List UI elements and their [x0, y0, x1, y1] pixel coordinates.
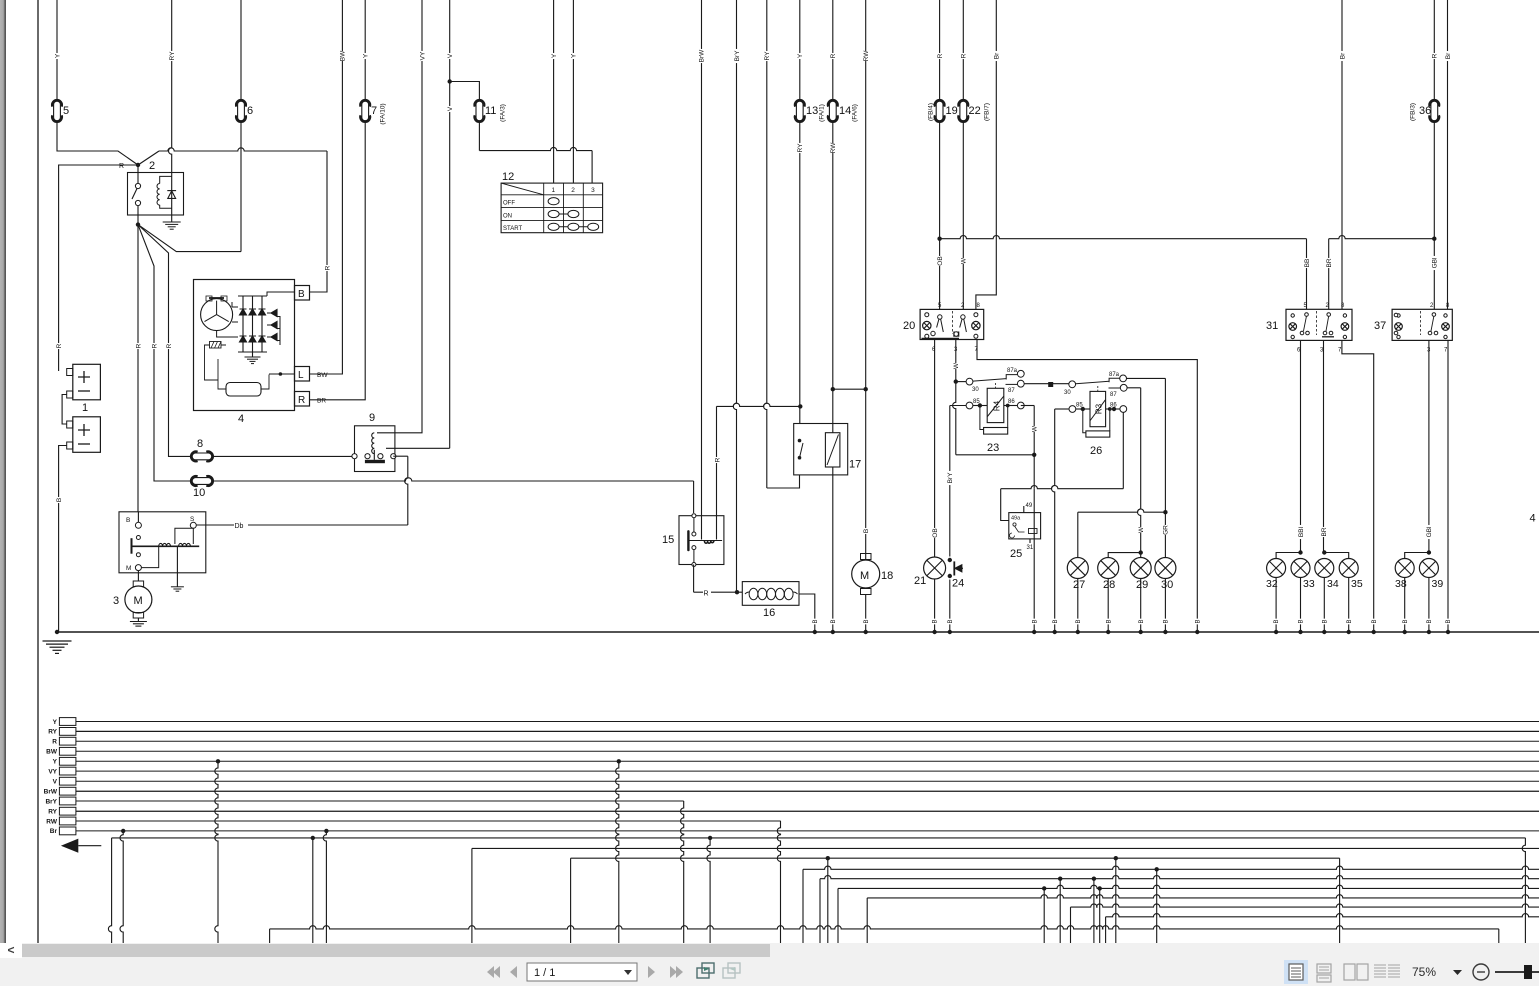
wire lamp 34 to bus [1323, 578, 1325, 633]
svg-text:B: B [1032, 619, 1038, 623]
label lamp 32 [1266, 578, 1278, 590]
junction diode24 bus [948, 630, 952, 634]
wire lamp 29 to bus [1140, 579, 1142, 633]
B splice 17 drop [830, 619, 837, 625]
retract page icon [697, 963, 714, 978]
junction lamp32 bus [1274, 630, 1278, 634]
relay 26 contact 87a [1109, 372, 1127, 382]
svg-text:86: 86 [1008, 399, 1015, 405]
label ignition switch 12 [502, 171, 514, 183]
wire Br to switch 31 pin8 [1341, 0, 1343, 309]
battery 1 cell A [67, 364, 101, 400]
svg-text:Br: Br [994, 52, 1001, 59]
junction relay23 30 [954, 379, 958, 383]
B splice lamp39 [1426, 619, 1433, 625]
svg-text:2: 2 [149, 160, 155, 172]
ground solenoid [171, 587, 184, 591]
lamp 30 [1155, 558, 1176, 579]
harness drop 24 [1114, 856, 1118, 943]
svg-text:B: B [56, 498, 63, 502]
svg-text:W: W [953, 362, 960, 369]
wire coil 16 to bus [799, 594, 815, 632]
svg-text:(FB/4): (FB/4) [927, 103, 934, 121]
svg-text:VY: VY [48, 768, 57, 775]
switch 31 pin6 [1297, 348, 1301, 354]
wire label Y2 [796, 53, 804, 59]
wire label R fan1 [134, 343, 142, 349]
starter B terminal [126, 512, 141, 540]
wire label B battery [55, 497, 63, 503]
harness wire BW row4 [76, 750, 1539, 752]
wire lamp 35 to bus [1348, 578, 1350, 633]
connector 6 [236, 100, 246, 122]
wire battery2 minus to ground bus [59, 446, 67, 633]
wire RY2 to switch 17 [764, 0, 800, 488]
harness route line a [112, 837, 1526, 839]
switch 20 dashed [951, 311, 953, 334]
harness drop 20 [1070, 907, 1072, 943]
harness drop 23 [1105, 917, 1107, 943]
svg-text:BR: BR [317, 398, 326, 405]
harness drop 18 [1042, 886, 1046, 943]
ignition switch 12 table box [501, 183, 602, 233]
wire lamp 30 to bus [1164, 579, 1166, 633]
svg-text:30: 30 [1064, 390, 1071, 396]
svg-text:5: 5 [938, 303, 942, 309]
svg-text:87: 87 [1008, 388, 1015, 394]
B splice motor18 [862, 619, 869, 625]
svg-text:BrW: BrW [698, 49, 705, 63]
svg-text:(FA/1): (FA/1) [818, 104, 825, 122]
wire label Y col2 [570, 53, 578, 59]
table 12 ON contacts [548, 210, 579, 217]
switch 15 bar [687, 531, 689, 550]
svg-text:B: B [831, 619, 837, 623]
svg-text:4: 4 [1530, 513, 1536, 525]
svg-text:87: 87 [1110, 392, 1117, 398]
wire relay26 86 to flasher 25 [1001, 412, 1124, 520]
label connector 7 FA10 [379, 103, 386, 124]
starter solenoid box [119, 512, 206, 573]
table 12 row ON [503, 213, 512, 219]
wire Db to starter S [193, 524, 407, 526]
relay 23 contact 85 [966, 399, 987, 409]
svg-text:OB: OB [937, 256, 944, 265]
relay 26 contact 30 [1064, 381, 1076, 396]
B splice lamp21 [931, 619, 938, 625]
svg-text:(FA/10): (FA/10) [379, 103, 386, 124]
harness drop 9 [616, 759, 621, 943]
relay 26 blade [1076, 381, 1110, 384]
svg-text:8: 8 [197, 438, 203, 450]
label connector 5 [63, 105, 69, 117]
harness drop 14 [819, 879, 821, 943]
starter armature bar [132, 545, 200, 547]
junction coil16 bus [813, 630, 817, 634]
wire Br to switch 37 pin8 [1447, 0, 1449, 309]
harness drop 13 [802, 869, 804, 943]
svg-text:R: R [937, 53, 944, 58]
wire label R fan2 [150, 343, 158, 349]
label alternator 4 [238, 413, 244, 425]
connector 14 [828, 100, 838, 122]
wire BrY drop [733, 0, 736, 592]
wire label BW top [339, 50, 347, 61]
svg-text:1: 1 [552, 187, 556, 194]
wire RY through relay 2 [169, 0, 172, 222]
svg-text:12: 12 [502, 171, 514, 183]
switch 37 contacts [1394, 313, 1438, 335]
wire label R battery riser [55, 343, 63, 349]
harness wire Br row12 [76, 830, 1539, 832]
harness connector Y row5 [59, 757, 76, 765]
svg-text:7: 7 [371, 105, 377, 117]
junction lamp21 bus [932, 630, 936, 634]
svg-text:BrW: BrW [44, 789, 58, 796]
relay 26 contact 85 [1069, 403, 1090, 413]
wire Y2 to component 17 [798, 0, 802, 424]
svg-text:26: 26 [1090, 445, 1102, 457]
wire label R [119, 163, 124, 170]
wire R через connector 36 [1432, 0, 1436, 309]
svg-text:Y: Y [797, 53, 804, 58]
harness wire Y row1 [76, 721, 1539, 723]
alternator 4 box [194, 280, 295, 411]
page border [37, 0, 39, 943]
wire lamp 38 feed [1405, 553, 1429, 559]
harness drop 7 [471, 848, 473, 943]
B splice lamp27 [1075, 619, 1082, 625]
svg-text:R: R [151, 343, 158, 348]
label battery 1 [82, 402, 88, 414]
harness wire V row7 [76, 780, 1539, 782]
svg-text:GBl: GBl [1426, 526, 1433, 537]
harness drop 3 [215, 759, 220, 943]
wire label Br 31 [1338, 51, 1346, 61]
wire fan to connector 6 wire [138, 225, 241, 252]
label relay 2 [149, 160, 155, 172]
alternator diode D6 [259, 336, 266, 342]
junction pin7 31 bus [1372, 630, 1376, 634]
svg-text:87a: 87a [1007, 368, 1018, 374]
wire switch31 pin6 to lamp 33 [1298, 340, 1302, 554]
harness drop 25 [1155, 867, 1159, 943]
switch 20 pin 3 [954, 347, 958, 353]
harness wire VY row6 [76, 770, 1539, 772]
alternator regulator box [226, 383, 261, 397]
relay 26 contact 86 [1106, 403, 1127, 413]
light switch 20 box [920, 309, 984, 339]
harness drop 15 [826, 856, 830, 943]
label connector 36 FB3 [1409, 103, 1416, 121]
switch 31 pin7 [1338, 348, 1342, 354]
wire regulator links [205, 359, 270, 389]
svg-text:10: 10 [193, 487, 205, 499]
starter coil 1 [159, 543, 171, 546]
svg-text:1: 1 [82, 402, 88, 414]
junction bus left [55, 630, 59, 634]
svg-text:BB: BB [1304, 259, 1311, 268]
wire label BB1 33 [1297, 525, 1305, 539]
harness label BW row4 [46, 749, 58, 756]
harness connector V row7 [59, 777, 76, 785]
relay 23 resistor [980, 404, 1010, 435]
switch 31 bottom bar [1322, 336, 1334, 338]
wire label R 22 [960, 53, 968, 59]
wire label R 19 [936, 53, 944, 59]
svg-text:GR: GR [1163, 525, 1170, 535]
wire battery1 minus to battery2 plus [62, 395, 67, 425]
svg-text:B: B [933, 619, 939, 623]
svg-text:33: 33 [1303, 578, 1315, 590]
relay 26 contact 87a stub [1109, 378, 1119, 382]
svg-text:(FA/6): (FA/6) [851, 104, 858, 122]
label relay 23 R4 [992, 400, 1001, 411]
switch 15 coil [704, 541, 713, 544]
wire label W drop [1031, 425, 1039, 432]
svg-text:34: 34 [1327, 578, 1339, 590]
label connector 36 [1419, 105, 1431, 117]
flasher 25 pin 49 [1024, 503, 1033, 513]
wire relay23 30 down link [953, 382, 1037, 457]
svg-text:17: 17 [849, 459, 861, 471]
svg-text:B: B [1322, 619, 1328, 623]
wire Y from fuse 5 to node R [57, 0, 138, 165]
harness label BrY row9 [45, 798, 57, 805]
svg-text:OB: OB [932, 528, 939, 537]
svg-text:87a: 87a [1109, 372, 1120, 378]
harness connector Y row1 [59, 718, 76, 726]
wire R feed to alternator B [138, 148, 327, 292]
harness route line i [1106, 914, 1539, 917]
svg-text:M: M [134, 595, 143, 607]
label starter 3 [113, 595, 119, 607]
harness connector BW row4 [59, 747, 76, 755]
harness drop 12 [777, 821, 780, 943]
junction diode24 bottom [948, 574, 952, 578]
wire R conn19 to switch 20 pin5 [937, 0, 941, 309]
switch 20 lamp right [972, 313, 980, 339]
wire label BR switch31 pin2 [1325, 258, 1333, 268]
label flasher 25 [1010, 548, 1022, 560]
svg-text:VY: VY [419, 51, 426, 60]
wire label W lamp29 [1137, 526, 1145, 533]
harness wire BrY row9 [76, 800, 684, 802]
wire connector 6 drop [240, 0, 242, 252]
wire lamp 38 to bus [1404, 578, 1406, 633]
svg-text:M: M [126, 565, 131, 572]
relay 26 resistor [1083, 407, 1112, 437]
svg-text:ON: ON [503, 213, 512, 219]
wire label R jumper [714, 457, 722, 463]
label component 17 [849, 459, 861, 471]
wire lamp 39 to bus [1428, 578, 1430, 633]
harness connector BrW row8 [59, 787, 76, 795]
svg-text:B: B [298, 289, 305, 300]
wire RW to motor 18 [864, 0, 868, 560]
wire lamp 21 to bus [934, 579, 936, 632]
alternator diode D4 [240, 336, 247, 342]
svg-text:20: 20 [903, 320, 915, 332]
label connector 14 [839, 105, 851, 117]
harness drop 21 [1092, 877, 1096, 944]
svg-text:Y: Y [571, 53, 578, 58]
wire lamp 28 to bus [1107, 579, 1109, 633]
svg-text:R3: R3 [1094, 403, 1103, 414]
wire M to motor [137, 571, 139, 581]
svg-text:B: B [1106, 619, 1112, 623]
svg-text:30: 30 [972, 387, 979, 393]
label lamp 21 [914, 575, 926, 587]
wire lamp 27 feed [1078, 509, 1166, 557]
svg-text:Y: Y [551, 53, 558, 58]
alternator rotor [201, 298, 233, 331]
B splice lamp33 [1297, 619, 1304, 625]
relay 26 coil box R3 [1090, 391, 1106, 426]
lamp 27 [1067, 558, 1088, 579]
table 12 START contacts [548, 223, 599, 230]
svg-text:7: 7 [1444, 348, 1448, 354]
svg-text:Y: Y [362, 53, 369, 58]
wire label RW top [862, 50, 870, 62]
svg-text:OFF: OFF [503, 201, 515, 207]
label connector 11 FA3 [499, 104, 506, 122]
label lamp 28 [1103, 579, 1115, 591]
switch 31 lamp left [1289, 314, 1297, 339]
harness wire Y row5 [76, 760, 1539, 762]
wire Y col2 to table [572, 0, 574, 183]
harness wire BrW row8 [76, 790, 1539, 792]
relay 23 dashed actuator [995, 383, 997, 388]
B splice W drop [1031, 619, 1038, 625]
wire switch20 pin6 to lamp 21 [934, 340, 936, 558]
switch 20 pin 7 [975, 347, 979, 353]
B splice lamp35 [1345, 619, 1352, 625]
lamp 32 [1267, 559, 1286, 578]
harness drop 1 [108, 838, 111, 943]
svg-text:R: R [135, 343, 142, 348]
svg-text:37: 37 [1374, 320, 1386, 332]
switch 15 contacts [692, 514, 696, 567]
svg-text:BR: BR [1326, 258, 1333, 267]
switch 15 box [679, 516, 724, 565]
wire solenoid coil to ground [176, 546, 178, 587]
svg-text:2: 2 [1430, 303, 1434, 309]
previous page button [510, 966, 517, 978]
svg-text:B: B [1195, 619, 1201, 623]
first page button [487, 966, 500, 978]
relay 9 armature [365, 450, 385, 463]
wire L terminal internal [269, 372, 295, 376]
switch 31 pin5 [1304, 303, 1308, 309]
wire label BW near L [317, 372, 328, 379]
wire switch37 pin3 to lamp 39 [1427, 340, 1431, 554]
relay 2 diode [167, 191, 176, 199]
flasher 25 innards [1010, 523, 1037, 538]
svg-text:BW: BW [340, 50, 347, 61]
wire R to 17 resistor [831, 0, 835, 433]
svg-text:21: 21 [914, 575, 926, 587]
alternator diode D2 [249, 296, 256, 352]
harness drop 17 [866, 898, 868, 943]
svg-text:Y: Y [54, 53, 61, 58]
harness label Br row12 [50, 828, 58, 835]
lamp 28 [1098, 558, 1119, 579]
svg-text:3: 3 [113, 595, 119, 607]
wire alternator stator to bridge [217, 302, 238, 337]
relay 23 contact 87a [1007, 368, 1024, 377]
label coil 16 [763, 607, 775, 619]
junction lamp34 bus [1322, 630, 1326, 634]
svg-text:2: 2 [571, 187, 575, 194]
ground below relay 2 [163, 222, 181, 229]
svg-text:25: 25 [1010, 548, 1022, 560]
svg-text:B: B [1427, 619, 1433, 623]
switch 20 pin 8 [977, 303, 981, 309]
harness label RY row10 [48, 809, 57, 816]
svg-text:RW: RW [46, 818, 58, 825]
switch 37 lamp left [1395, 314, 1403, 339]
switch 31 dashed [1316, 311, 1318, 335]
relay 23 coil box R4 [987, 388, 1004, 422]
harness drop 5 [311, 836, 315, 943]
harness drop 6 [323, 829, 328, 943]
svg-text:RY: RY [169, 51, 176, 61]
switch 20 bottom bar [922, 338, 960, 340]
ignition coil 16 box [742, 582, 799, 606]
wire label B motor18 [862, 528, 870, 534]
diode 24 [954, 561, 963, 575]
label lamp 33 [1303, 578, 1315, 590]
label connector 19 FB4 [927, 103, 934, 121]
wire switch20 pin7 to bus [977, 340, 1197, 633]
svg-text:M: M [860, 570, 869, 582]
wire relay 2 switch to fan junction [137, 206, 139, 225]
wire BR from R terminal [310, 122, 366, 400]
harness label BrW row8 [44, 789, 58, 796]
svg-text:B: B [1274, 619, 1280, 623]
harness arrow [61, 839, 101, 853]
harness wire RY row2 [76, 730, 1539, 732]
junction node R [136, 163, 140, 167]
svg-text:R: R [961, 53, 968, 58]
svg-text:RW: RW [863, 50, 870, 62]
layout single page icon active [1284, 960, 1308, 984]
switch 37 pin3 [1427, 348, 1431, 354]
wire label BR 34 [1320, 527, 1328, 537]
switch 20 lamp left [923, 313, 931, 339]
ground bus [57, 631, 1539, 633]
junction lamp39 bus [1427, 630, 1431, 634]
relay 9 box [355, 426, 395, 472]
svg-text:B: B [1446, 619, 1452, 623]
harness route line c [571, 857, 1340, 859]
switch 37 pin8 [1446, 303, 1450, 309]
switch 20 pin 2 [961, 303, 965, 309]
harness wire RW row11 [76, 820, 781, 822]
wire label RY below 13 [796, 143, 804, 153]
wire B terminal internal [267, 292, 295, 296]
relay 26 dashed actuator [1097, 386, 1099, 391]
svg-text:B: B [126, 517, 130, 524]
wire switch31 pin3 to lamp 34 [1322, 340, 1326, 554]
page number box [527, 963, 637, 981]
wire label BB switch31 feed [1303, 258, 1311, 268]
wire motor to ground [137, 618, 139, 622]
switch 31 box [1286, 309, 1352, 340]
wire label R 36 [1431, 53, 1439, 59]
B splice diode24 [947, 619, 954, 625]
